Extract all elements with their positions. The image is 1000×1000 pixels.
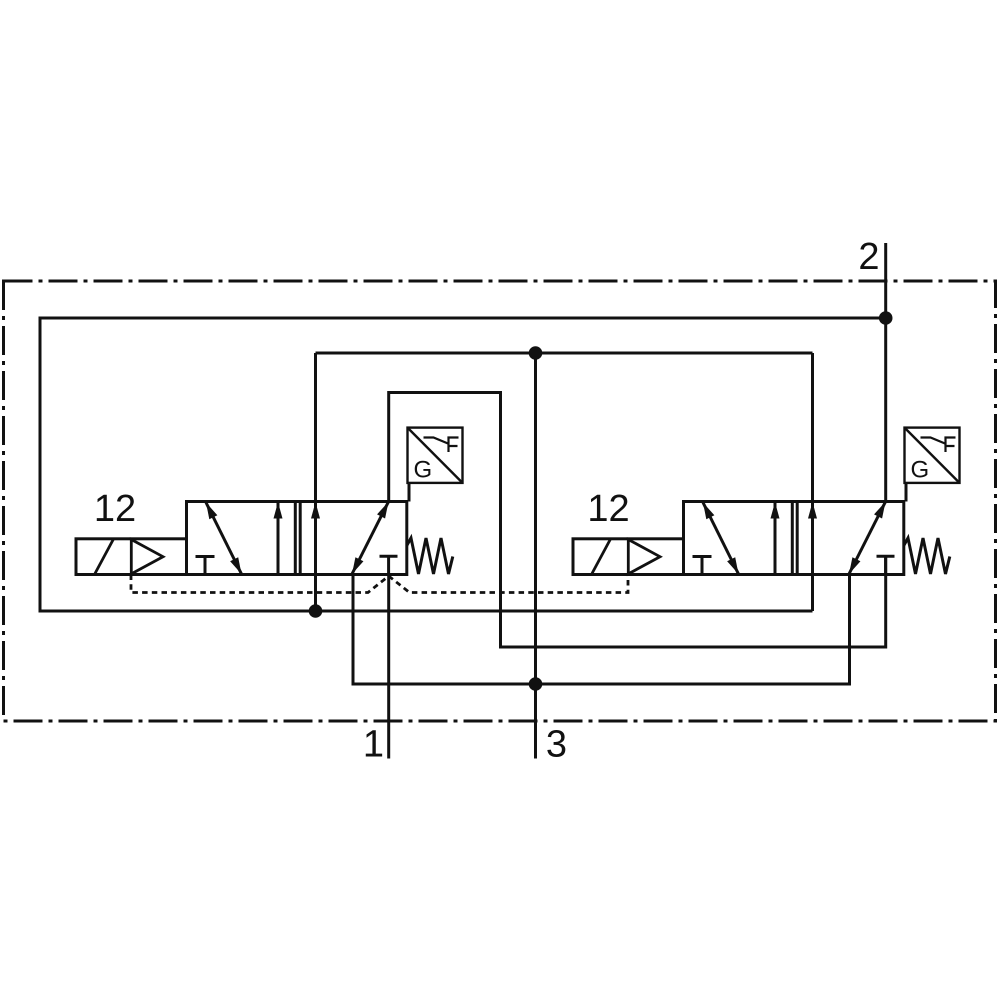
svg-text:12: 12 [587,488,629,530]
wire exhaust bottom loop [353,575,850,685]
svg-text:12: 12 [94,488,136,530]
G box F-glyph [921,438,946,444]
enclosure dash-dot border [4,281,996,721]
svg-text:2: 2 [858,236,879,278]
blocked port T (right square) [877,556,895,574]
solenoid diagonal stroke [95,539,114,574]
svg-text:G: G [414,457,433,484]
svg-text:G: G [911,457,930,484]
junction dot valve1 outlet / net2 [309,604,323,618]
pneumatic spring G box [905,428,960,483]
solenoid coil box [76,539,187,575]
valve V1 (3/2-way, solenoid pilot, pneumatic spring return) [76,428,463,575]
return spring [407,538,453,574]
wire cross link valve1-out to valve2-in [389,393,886,648]
G-box connector stub [905,483,908,502]
junction dot port2 / net2 [879,311,893,325]
valve body [684,502,904,575]
valve body [187,502,407,575]
pilot amplifier triangle [628,540,660,574]
wire port 2 riser [884,243,887,502]
wire valve1 outlet shaft [314,353,317,611]
flow diagonal arrow (left square) [206,503,242,575]
position divider lines [295,502,300,575]
svg-text:1: 1 [363,724,384,766]
up arrow (left square) [774,503,777,575]
blocked port T (right square) [380,556,398,574]
flow diagonal arrow (left square) [703,503,739,575]
svg-text:3: 3 [546,724,567,766]
pilot amplifier triangle [131,540,163,574]
up arrow (left square) [277,503,280,575]
up arrow head (right square outlet) [311,502,320,519]
wire net-3 top link [316,352,813,355]
flow diagonal arrow (right square) [849,502,886,574]
wire port 3 drop [534,353,537,759]
wire valve2 outlet shaft [811,353,814,611]
pilot dashed line [131,575,628,593]
flow diagonal arrow (right square) [352,502,389,574]
blocked port T (left square) [196,557,215,575]
valve V2 (3/2-way, solenoid pilot, pneumatic spring return) [573,428,960,575]
pneumatic spring G box [408,428,463,483]
G box F-glyph [424,438,449,444]
G-box connector stub [408,483,411,502]
wire port 1 drop [387,575,390,759]
up arrow head (right square outlet) [808,502,817,519]
solenoid diagonal stroke [592,539,611,574]
blocked port T (left square) [693,557,712,575]
junction dot net3 top / port3 [529,346,543,360]
wire net-2 outer loop [40,318,886,611]
position divider lines [792,502,797,575]
return spring [904,538,950,574]
junction dot exhaust loop / port3 [529,677,543,691]
solenoid coil box [573,539,684,575]
